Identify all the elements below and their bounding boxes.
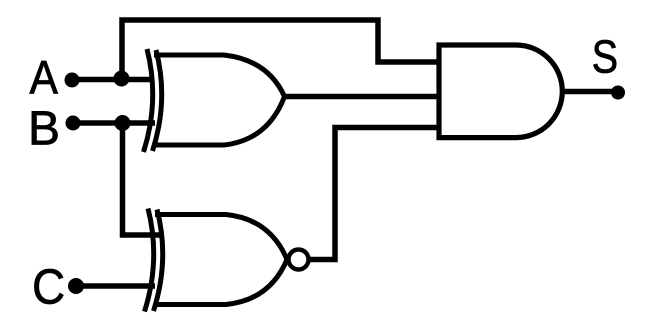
wire AND output to S terminal	[558, 89, 614, 95]
junction A / top branch	[114, 71, 130, 87]
svg-text:C: C	[32, 260, 65, 315]
XOR gate U1 (A xor B)	[144, 49, 285, 152]
XNOR gate U2 (B xnor C) body	[145, 209, 288, 312]
terminal dot C	[68, 278, 84, 294]
junction B / bottom branch	[115, 115, 131, 131]
XNOR U2 inversion bubble	[289, 250, 309, 270]
wire A branch up to top run, over and down to AND top input	[122, 20, 439, 80]
wire XNOR U2 output up to AND bottom input	[308, 128, 439, 260]
svg-text:B: B	[28, 103, 60, 156]
terminal dot S	[611, 86, 625, 100]
input label A	[30, 51, 58, 104]
svg-text:S: S	[592, 32, 618, 84]
AND gate U3 (3-input)	[439, 45, 562, 138]
wire B input	[71, 120, 155, 126]
terminal dot B	[66, 116, 81, 131]
wire XOR U1 output to AND middle input	[283, 94, 439, 100]
wire B branch down to XNOR top input	[123, 123, 161, 235]
svg-text:A: A	[30, 51, 58, 104]
terminal dot A	[65, 73, 80, 88]
wire C input	[74, 283, 155, 289]
input label C	[32, 260, 65, 315]
wire A input	[70, 77, 153, 83]
output label S	[592, 32, 618, 84]
